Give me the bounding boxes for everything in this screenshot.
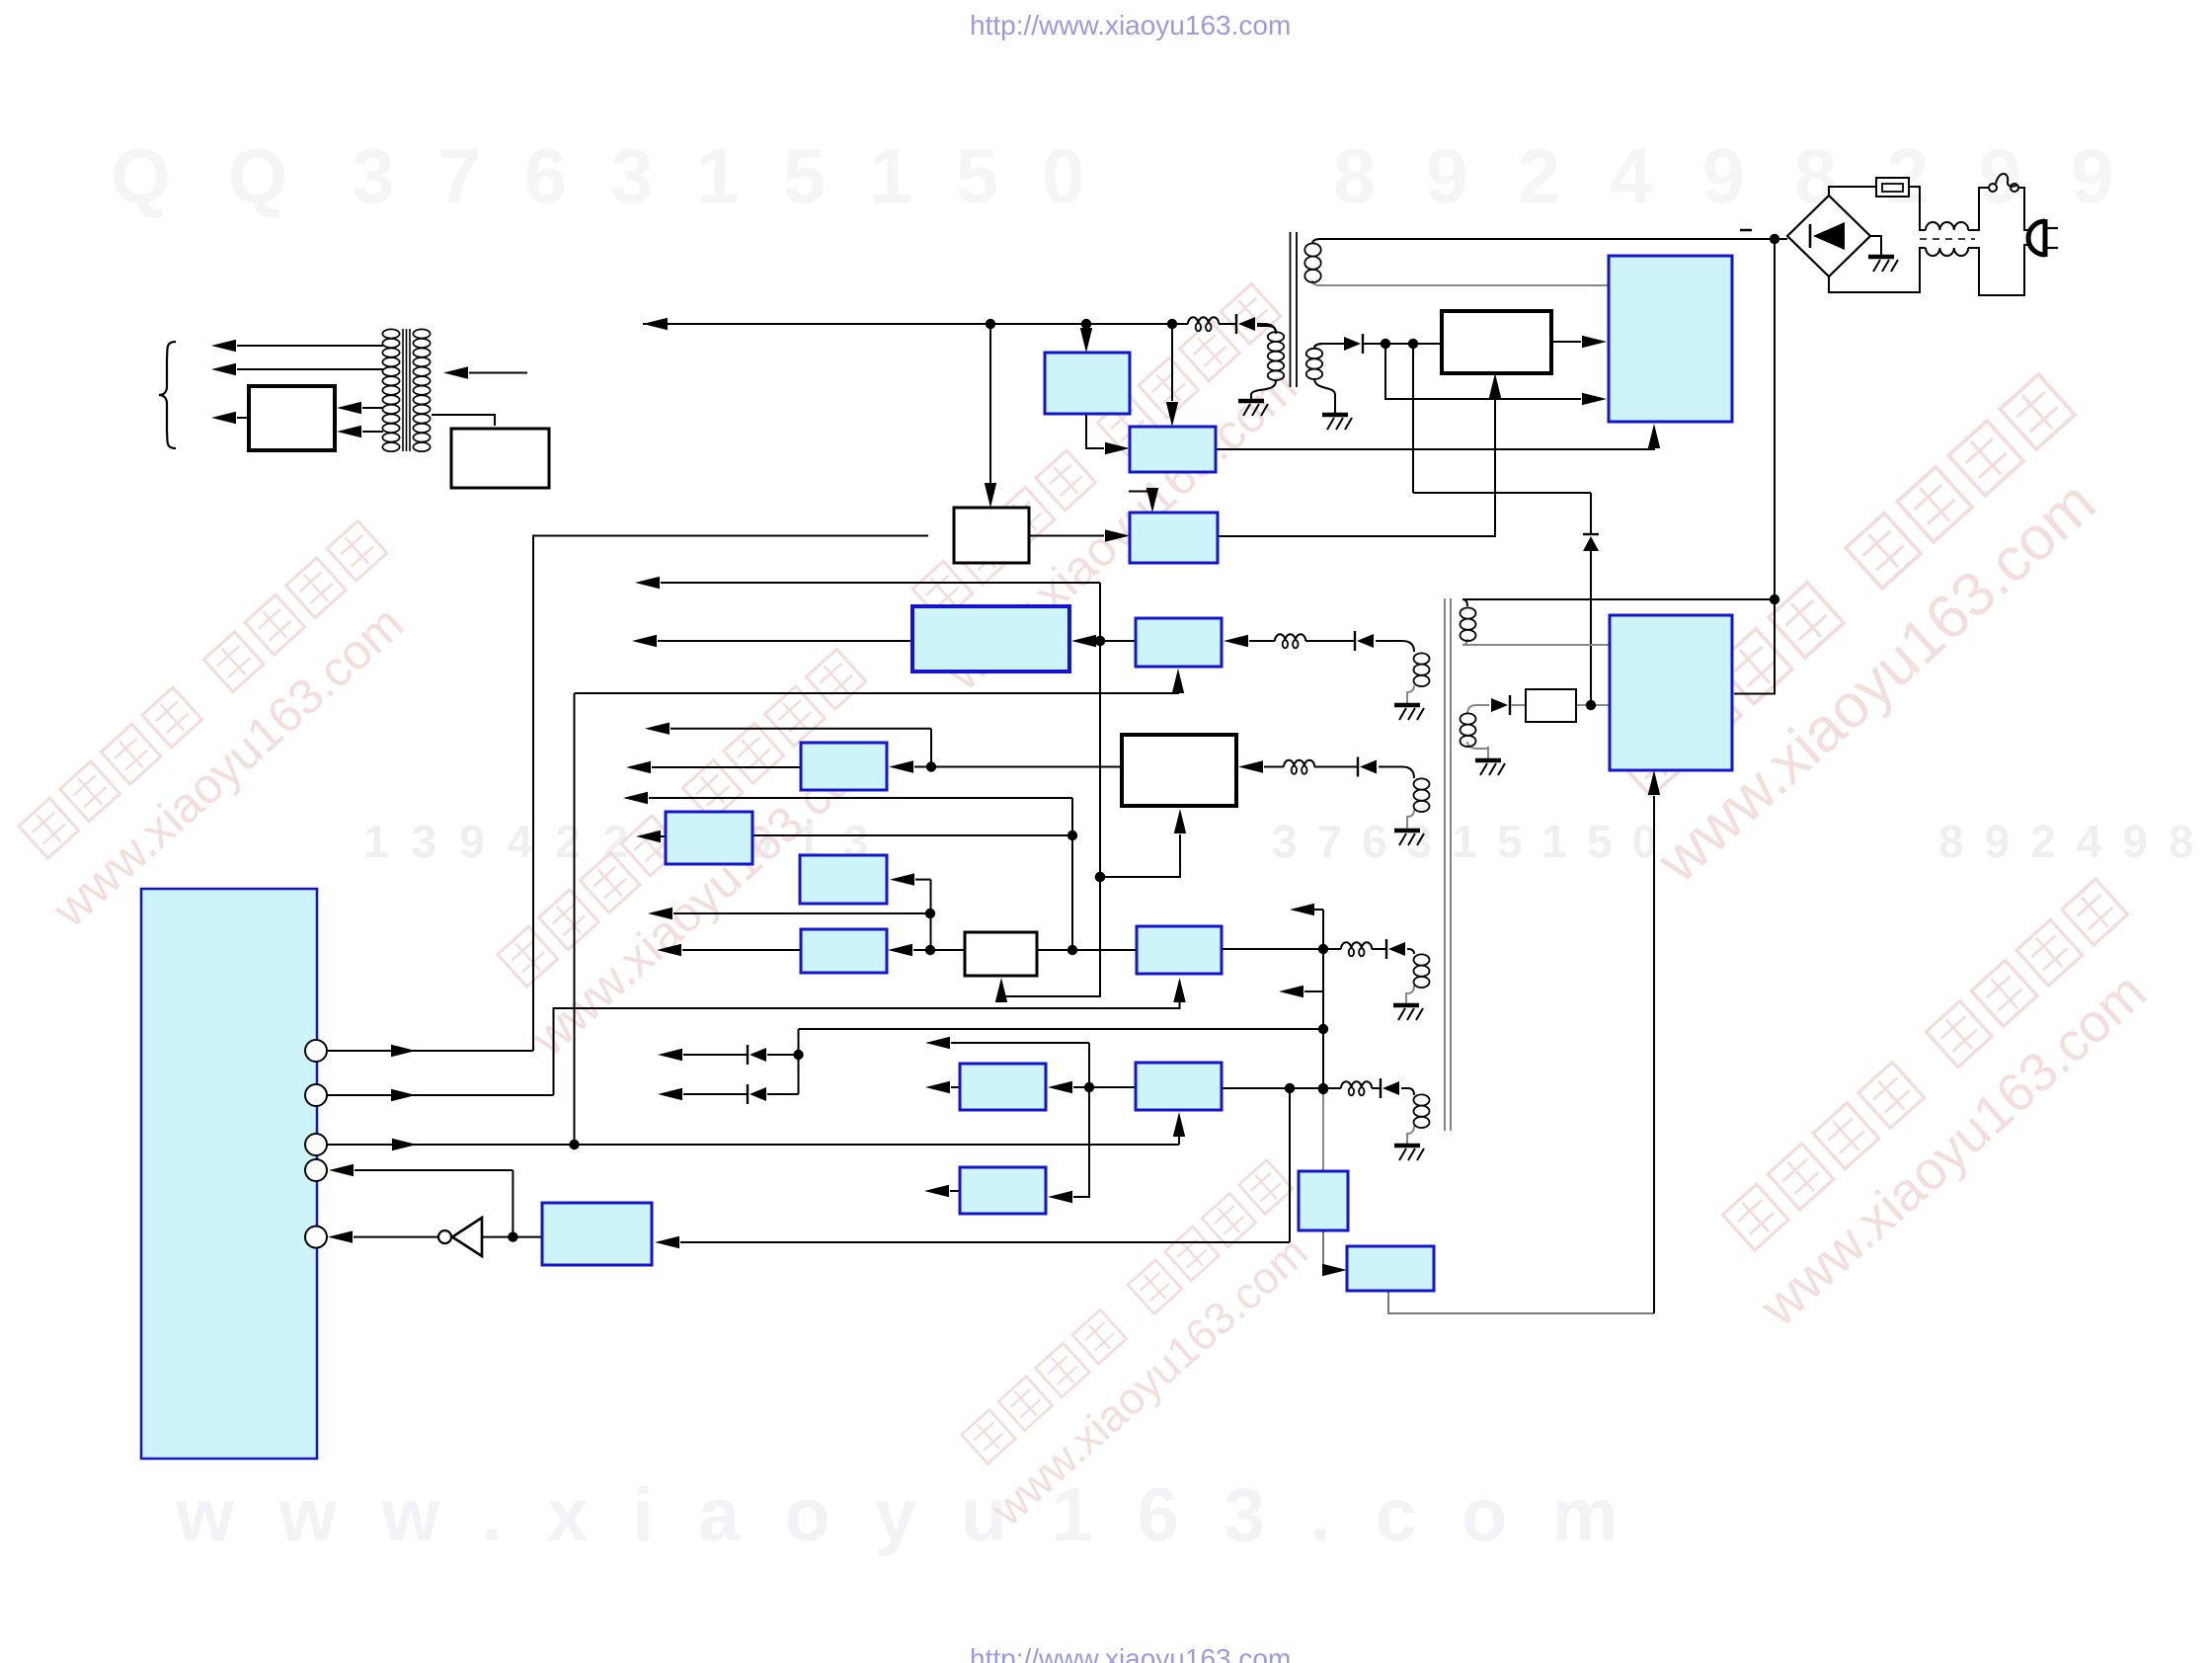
svg-text:QQ: QQ <box>111 132 345 219</box>
svg-text:892498299: 892498299 <box>1938 816 2212 867</box>
svg-text:376315150: 376315150 <box>352 132 1128 219</box>
svg-text:www.xiaoyu163.com: www.xiaoyu163.com <box>175 1473 1663 1557</box>
svg-text:892498299: 892498299 <box>1333 132 2163 219</box>
svg-text:376315150: 376315150 <box>1272 816 1677 867</box>
svg-text:http://www.xiaoyu163.com: http://www.xiaoyu163.com <box>970 1643 1291 1663</box>
svg-text:http://www.xiaoyu163.com: http://www.xiaoyu163.com <box>970 10 1291 40</box>
